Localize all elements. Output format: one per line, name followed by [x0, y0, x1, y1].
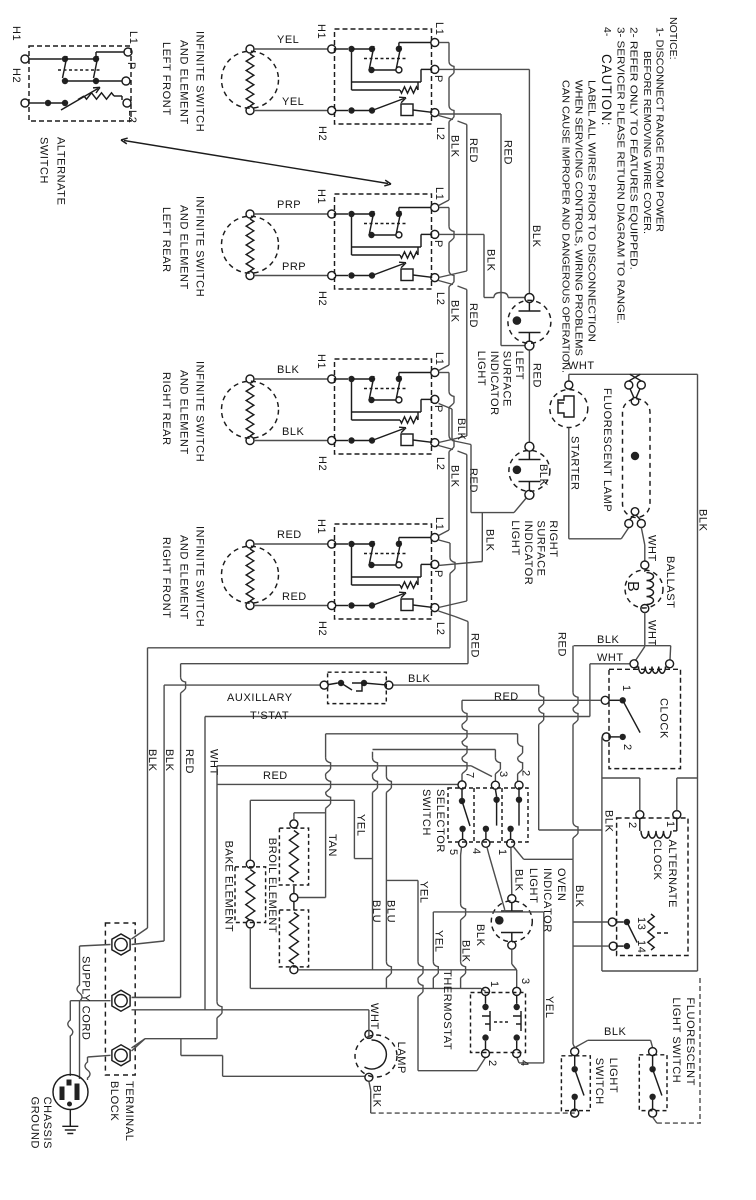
- element E2 (left rear surface element): [222, 216, 279, 273]
- wire starter to lamp bottom: [568, 428, 570, 539]
- broil element middle junction: [290, 894, 298, 902]
- svg-text:RED: RED: [556, 632, 568, 657]
- chassis ground plug: [53, 1075, 88, 1110]
- svg-text:7: 7: [464, 772, 476, 779]
- svg-text:RED: RED: [502, 140, 514, 165]
- thermostat terminal 4: [513, 1050, 521, 1058]
- svg-text:1: 1: [620, 685, 632, 692]
- terminal P SW2: [431, 230, 439, 238]
- clock terminal 2: [602, 733, 610, 741]
- svg-text:RED: RED: [263, 770, 288, 782]
- svg-text:3- SERVICER PLEASE RETURN DIAG: 3- SERVICER PLEASE RETURN DIAGRAM TO RAN…: [615, 27, 627, 324]
- svg-text:YEL: YEL: [418, 881, 430, 904]
- svg-text:PRP: PRP: [282, 261, 306, 273]
- svg-text:CLOCK: CLOCK: [658, 698, 670, 739]
- svg-text:BLK: BLK: [485, 249, 497, 272]
- svg-text:1: 1: [488, 981, 500, 988]
- selector terminal 5: [459, 839, 467, 847]
- svg-text:THERMOSTAT: THERMOSTAT: [441, 970, 453, 1050]
- svg-text:SURFACE: SURFACE: [500, 351, 512, 407]
- wire P1 to left surface indicator light (BLK): [439, 68, 530, 70]
- alternate clock terminal 13: [608, 918, 616, 926]
- svg-text:BLK: BLK: [537, 464, 549, 487]
- wire trunk vertical V1 BLK to terminal block: [147, 648, 149, 928]
- svg-text:BLK: BLK: [513, 869, 525, 892]
- light switch box: [561, 1056, 590, 1111]
- wire clock terminal 2 BLK drop: [601, 736, 603, 738]
- svg-text:BLK: BLK: [455, 418, 467, 441]
- wire broil bottom common line to thermostat 3: [298, 969, 517, 971]
- svg-text:BLK: BLK: [163, 749, 175, 772]
- wire trunk vertical V4 WHT: [204, 717, 206, 1010]
- bake element: [235, 867, 266, 923]
- wire P4 drop (BLK): [481, 513, 483, 562]
- terminal H1 SW2: [328, 210, 336, 218]
- wire element E4 H2 lead: [254, 605, 328, 607]
- terminal block box: [105, 923, 135, 1075]
- wire trunk line B (RED, L2 net): [181, 663, 468, 665]
- infinite switch SW3 internal contacts: [336, 378, 348, 380]
- wire selector feed line 2 to terminal 3: [217, 765, 471, 767]
- svg-text:WHT: WHT: [646, 535, 658, 562]
- supply cord wire 2: [70, 1000, 110, 1002]
- terminal block hex nut 1: [112, 934, 130, 955]
- svg-text:TERMINAL: TERMINAL: [123, 1081, 135, 1141]
- wire TAN drop to broil: [325, 734, 327, 758]
- svg-text:AND ELEMENT: AND ELEMENT: [178, 40, 190, 125]
- svg-text:2: 2: [486, 1060, 498, 1067]
- svg-text:INFINITE SWITCH: INFINITE SWITCH: [194, 31, 206, 132]
- svg-text:L2: L2: [434, 127, 446, 140]
- terminal L1 SW3: [431, 369, 439, 377]
- alternate clock terminal 2: [636, 811, 644, 819]
- wire clock terminal 1 RED line: [462, 699, 601, 701]
- svg-text:BLK: BLK: [449, 135, 461, 158]
- wire fluorescent switch bottom to chassis: [653, 1117, 657, 1123]
- svg-text:NOTICE:: NOTICE:: [667, 17, 679, 60]
- clock terminal 1: [601, 696, 609, 704]
- fluorescent lamp: [623, 399, 651, 518]
- selector switch box: [448, 788, 528, 842]
- wire WHT top lamp run: [569, 373, 698, 375]
- thermostat terminal 3: [513, 987, 521, 995]
- svg-text:AND ELEMENT: AND ELEMENT: [178, 535, 190, 620]
- wire terminal 13 stub: [573, 921, 608, 923]
- wire bake bottom to common line: [249, 928, 251, 989]
- infinite switch SW4 box: [335, 524, 432, 619]
- svg-text:2- REFER ONLY TO FEATURES EQUI: 2- REFER ONLY TO FEATURES EQUIPPED.: [628, 27, 640, 270]
- svg-text:FLUORESCENT: FLUORESCENT: [684, 998, 696, 1087]
- thermostat terminal 2: [482, 1050, 490, 1058]
- svg-text:INFINITE SWITCH: INFINITE SWITCH: [194, 361, 206, 462]
- wire RED line E to terminal 7: [217, 783, 458, 785]
- svg-text:H2: H2: [316, 621, 328, 636]
- wire oven lamp BLK to chassis line: [369, 1081, 371, 1090]
- wire L2 chain row2 to row3 (RED): [439, 281, 454, 285]
- broil element upper half: [279, 828, 308, 885]
- oven indicator light: [508, 895, 516, 903]
- wire alternate clock terminal 1 up: [676, 778, 678, 811]
- wire trunk line A (BLK, L1 net): [148, 647, 451, 649]
- terminal P SW1: [431, 65, 439, 73]
- svg-text:YEL: YEL: [433, 930, 445, 953]
- wire trunk vertical V2 BLK: [163, 685, 165, 941]
- alternate clock terminal 1: [673, 811, 681, 819]
- svg-text:WHEN SERVICING CONTROLS, WIRIN: WHEN SERVICING CONTROLS, WIRING PROBLEMS: [573, 80, 585, 356]
- svg-text:BEFORE REMOVING WIRE COVER.: BEFORE REMOVING WIRE COVER.: [641, 51, 653, 234]
- svg-text:BLU: BLU: [385, 900, 397, 923]
- svg-text:RED: RED: [467, 303, 479, 328]
- wire trunk vertical V5 RED: [216, 766, 218, 1002]
- svg-text:INDICATOR: INDICATOR: [541, 868, 553, 933]
- svg-text:STARTER: STARTER: [569, 436, 581, 491]
- svg-text:BLK: BLK: [603, 810, 615, 833]
- svg-text:WHT: WHT: [368, 1003, 380, 1030]
- svg-text:H2: H2: [10, 68, 22, 83]
- terminal L1 alternate switch: [124, 48, 132, 56]
- svg-text:BLK: BLK: [460, 940, 472, 963]
- svg-text:BLK: BLK: [408, 673, 430, 685]
- alternate clock coil: [639, 819, 641, 831]
- right surface indicator light: [509, 450, 550, 491]
- svg-text:1- DISCONNECT RANGE FROM POWER: 1- DISCONNECT RANGE FROM POWER: [654, 27, 666, 232]
- svg-text:4: 4: [518, 1060, 530, 1067]
- svg-text:CAN CAUSE IMPROPER AND DANGERO: CAN CAUSE IMPROPER AND DANGEROUS OPERATI…: [560, 80, 572, 373]
- wire L1 chain row3 to row4 (BLK): [439, 372, 449, 374]
- wire element E2 H1 lead: [254, 213, 328, 215]
- wire P2 to left surface indicator light (BLK): [439, 233, 484, 235]
- selector terminal 1: [507, 839, 515, 847]
- wire lamp to ballast (WHT): [641, 528, 645, 546]
- wire WHT clock line: [590, 663, 630, 665]
- svg-text:4-: 4-: [601, 27, 613, 37]
- svg-text:RIGHT: RIGHT: [547, 520, 559, 557]
- supply cord wire 1: [80, 945, 111, 947]
- svg-text:LABEL ALL WIRES PRIOR TO DISCO: LABEL ALL WIRES PRIOR TO DISCONNECTION: [586, 80, 598, 342]
- wire BLU vertical from selector-3 line: [385, 766, 387, 777]
- terminal H2 alternate switch: [21, 99, 29, 107]
- svg-text:RED: RED: [183, 749, 195, 774]
- wire oven light bottom to thermostat 3: [511, 950, 513, 964]
- terminal P SW4: [431, 560, 439, 568]
- svg-text:TAN: TAN: [326, 834, 338, 857]
- alternate clock resistor: [648, 914, 654, 950]
- svg-text:BLOCK: BLOCK: [108, 1081, 120, 1121]
- terminal L1 SW1: [431, 39, 439, 47]
- oven lamp: [365, 1030, 373, 1038]
- svg-text:CAUTION:: CAUTION:: [599, 54, 614, 127]
- wire hex2 WHT stub to oven lamp: [132, 1009, 369, 1011]
- svg-text:RED: RED: [467, 468, 479, 493]
- svg-text:SURFACE: SURFACE: [534, 520, 546, 576]
- terminal H1 SW1: [328, 45, 336, 53]
- svg-text:L2: L2: [434, 292, 446, 305]
- terminal L2 SW2: [431, 274, 439, 282]
- svg-text:WHT: WHT: [646, 620, 658, 647]
- wire element E3 H1 lead: [254, 378, 328, 380]
- terminal H2 SW4: [328, 602, 336, 610]
- svg-text:H1: H1: [315, 519, 327, 534]
- svg-text:BLK: BLK: [474, 924, 486, 947]
- svg-text:L1: L1: [127, 31, 139, 44]
- fluorescent light switch box: [639, 1055, 667, 1111]
- wire element E4 H1 lead: [254, 543, 328, 545]
- terminal block hex nut 2: [112, 990, 130, 1011]
- svg-text:INDICATOR: INDICATOR: [488, 351, 500, 416]
- svg-text:WHT: WHT: [597, 652, 624, 664]
- supply cord wire 3: [88, 1055, 111, 1057]
- wire chassis dashed line bottom: [371, 1112, 575, 1114]
- svg-text:BAKE ELEMENT: BAKE ELEMENT: [223, 841, 235, 933]
- svg-text:LEFT REAR: LEFT REAR: [160, 207, 172, 273]
- terminal H1 SW3: [328, 375, 336, 383]
- selector terminal 7: [458, 781, 466, 789]
- wire BLK between switches: [575, 1040, 588, 1047]
- wire alternate clock terminal 2 up: [639, 778, 641, 811]
- svg-text:L2: L2: [434, 457, 446, 470]
- svg-text:BROIL ELEMENT: BROIL ELEMENT: [266, 838, 278, 933]
- wire RED to bake top / YEL net: [250, 799, 354, 801]
- svg-text:RIGHT REAR: RIGHT REAR: [160, 372, 172, 446]
- svg-text:BLK: BLK: [449, 300, 461, 323]
- wire trunk vertical V3 RED: [180, 664, 182, 677]
- svg-text:SWITCH: SWITCH: [38, 137, 50, 184]
- ballast: [625, 570, 663, 608]
- svg-text:3: 3: [519, 978, 531, 985]
- alternate clock box: [617, 818, 688, 956]
- element E4 (right front surface element): [222, 546, 279, 603]
- svg-text:L1: L1: [433, 517, 445, 530]
- infinite switch SW3 box: [335, 359, 432, 454]
- broil element lower half: [279, 910, 308, 967]
- svg-text:AND ELEMENT: AND ELEMENT: [178, 205, 190, 290]
- svg-text:L2: L2: [434, 622, 446, 635]
- wire chassis right dashed: [699, 978, 701, 1123]
- thermostat internal contacts: [482, 1004, 488, 1010]
- svg-text:LIGHT SWITCH: LIGHT SWITCH: [670, 998, 682, 1084]
- wire V5 to terminal block hex3: [145, 1038, 217, 1040]
- svg-text:LEFT FRONT: LEFT FRONT: [160, 42, 172, 116]
- selector terminal 3: [491, 781, 499, 789]
- svg-text:RED: RED: [531, 363, 543, 388]
- wire selector feed line to terminal 3: [373, 749, 496, 751]
- svg-text:INFINITE SWITCH: INFINITE SWITCH: [194, 526, 206, 627]
- svg-text:LIGHT: LIGHT: [475, 351, 487, 386]
- wire YEL right drop to thermostat 4: [543, 912, 545, 1063]
- wire L2 chain row3 to row4 (RED): [439, 446, 454, 450]
- svg-text:L1: L1: [433, 22, 445, 35]
- broil element bottom terminal: [290, 966, 298, 974]
- terminal P SW3: [431, 395, 439, 403]
- terminal H2 SW1: [328, 107, 336, 115]
- auxiliary t'stat box: [328, 672, 387, 703]
- wire hex3 stub: [132, 1039, 146, 1051]
- wire selector 1 to light switch (BLK): [514, 847, 524, 859]
- svg-text:RED: RED: [277, 529, 302, 541]
- svg-text:H2: H2: [316, 456, 328, 471]
- svg-text:BLK: BLK: [530, 225, 542, 248]
- svg-text:FLUORESCENT LAMP: FLUORESCENT LAMP: [601, 388, 613, 512]
- svg-text:P: P: [432, 240, 444, 248]
- svg-text:H1: H1: [315, 354, 327, 369]
- ground symbol: [69, 1110, 71, 1127]
- wire element E2 H2 lead: [254, 275, 328, 277]
- wire aux t'stat line: [164, 684, 320, 686]
- wire right BLK bus: [697, 374, 699, 971]
- svg-text:H1: H1: [315, 189, 327, 204]
- svg-text:BLU: BLU: [370, 900, 382, 923]
- light switch terminals and contact: [571, 1048, 579, 1056]
- svg-text:2: 2: [520, 770, 532, 777]
- wire L1-4 drop to trunk A: [439, 540, 450, 543]
- svg-text:P: P: [125, 62, 137, 70]
- svg-text:14: 14: [635, 940, 647, 953]
- svg-text:2: 2: [621, 744, 633, 751]
- svg-text:3: 3: [497, 771, 509, 778]
- svg-text:BLK: BLK: [371, 1085, 383, 1108]
- terminal H1 SW4: [328, 540, 336, 548]
- svg-text:1: 1: [664, 821, 676, 828]
- svg-text:BLK: BLK: [604, 1026, 626, 1038]
- svg-text:1: 1: [496, 849, 508, 856]
- wire hex3 staircase to oven lamp: [180, 1039, 182, 1056]
- svg-text:LAMP: LAMP: [395, 1042, 407, 1074]
- wire L2 chain row1 to row2 (RED): [439, 116, 454, 120]
- wire YEL drop x=433.3: [432, 912, 434, 962]
- terminal block hex nut 3: [112, 1045, 130, 1066]
- infinite switch SW3 pilot resistor: [351, 382, 353, 412]
- svg-text:YEL: YEL: [355, 814, 367, 837]
- wire ballast to clock coil (WHT): [644, 613, 646, 647]
- wire WHT to oven lamp: [368, 1010, 370, 1039]
- svg-text:B: B: [624, 581, 641, 592]
- svg-text:4: 4: [470, 848, 482, 855]
- svg-text:BALLAST: BALLAST: [664, 556, 676, 609]
- terminal P alternate switch: [122, 77, 130, 85]
- infinite switch SW4 pilot resistor: [351, 547, 353, 577]
- wire selector-3 chain vertical: [372, 752, 374, 758]
- terminal L2 SW4: [431, 604, 439, 612]
- svg-text:CHASSIS: CHASSIS: [41, 1097, 53, 1150]
- selector internal contacts: [459, 798, 465, 804]
- svg-text:BLK: BLK: [449, 465, 461, 488]
- terminal L1 SW2: [431, 204, 439, 212]
- alternate clock terminal 14: [609, 942, 617, 950]
- svg-text:LIGHT: LIGHT: [527, 868, 539, 903]
- clock coil: [630, 660, 638, 668]
- svg-text:H2: H2: [316, 291, 328, 306]
- aux t'stat terminals and contact: [320, 681, 328, 689]
- terminal L2 alternate switch: [123, 99, 131, 107]
- svg-text:BLK: BLK: [277, 364, 299, 376]
- svg-text:BLK: BLK: [484, 529, 496, 552]
- wire L1 chain row1 to row2 (BLK): [439, 42, 449, 44]
- svg-text:RED: RED: [494, 691, 519, 703]
- infinite switch SW1 internal contacts: [336, 48, 348, 50]
- wire hex2 RED stub: [132, 996, 181, 998]
- alternate switch rotary contact and resistor: [29, 102, 45, 104]
- wire selector 5 to thermostat 1 (BLK): [460, 847, 463, 855]
- svg-text:P: P: [432, 405, 444, 413]
- wire L2-4 drop to trunk B: [439, 611, 456, 617]
- wire element E3 H2 lead: [254, 440, 328, 442]
- svg-text:ALTERNATE: ALTERNATE: [666, 840, 678, 909]
- wire BLK vertical clock line to light switch: [572, 646, 574, 693]
- infinite switch SW2 pilot resistor: [351, 217, 353, 247]
- svg-text:P: P: [432, 75, 444, 83]
- svg-text:13: 13: [635, 917, 647, 930]
- terminal H2 SW2: [328, 272, 336, 280]
- svg-text:2: 2: [626, 822, 638, 829]
- infinite switch SW1 pilot resistor: [351, 52, 353, 82]
- svg-text:AND ELEMENT: AND ELEMENT: [178, 370, 190, 455]
- svg-text:INFINITE SWITCH: INFINITE SWITCH: [194, 196, 206, 297]
- starter: [568, 374, 570, 381]
- terminal H1 alternate switch: [21, 55, 29, 63]
- svg-text:YEL: YEL: [543, 996, 555, 1019]
- clock box: [609, 669, 681, 768]
- svg-text:P: P: [432, 570, 444, 578]
- infinite switch SW4 internal contacts: [336, 543, 348, 545]
- infinite switch SW2 bottom contact and sensor: [336, 275, 348, 277]
- wire terminal 14 stub: [573, 945, 609, 947]
- svg-text:BLK: BLK: [282, 426, 304, 438]
- svg-text:LIGHT: LIGHT: [509, 520, 521, 555]
- wire selector 4 to YEL line: [487, 847, 489, 855]
- infinite switch SW2 internal contacts: [336, 213, 348, 215]
- svg-text:BLK: BLK: [597, 634, 619, 646]
- wire trunk line D WHT: [205, 716, 590, 718]
- wire P3 to right light bottom (BLK): [439, 404, 452, 410]
- svg-text:SUPPLY CORD: SUPPLY CORD: [80, 956, 92, 1040]
- thermostat terminal 1: [482, 987, 490, 995]
- arrow from alternate switch to infinite switch: [124, 141, 388, 184]
- svg-text:T’STAT: T’STAT: [250, 710, 289, 722]
- svg-text:SELECTOR: SELECTOR: [434, 789, 446, 853]
- svg-text:L1: L1: [433, 352, 445, 365]
- wire L2-1 RED to left light bottom: [439, 113, 502, 115]
- wire element E1 H1 lead: [254, 48, 328, 50]
- alternate switch internal contacts: [29, 58, 62, 60]
- svg-text:LEFT: LEFT: [513, 351, 525, 380]
- terminal L2 SW1: [431, 109, 439, 117]
- svg-text:H1: H1: [315, 24, 327, 39]
- svg-text:5: 5: [447, 849, 459, 856]
- svg-text:PRP: PRP: [277, 199, 301, 211]
- wire clock RED drop to terminal 7: [461, 700, 463, 708]
- svg-text:YEL: YEL: [282, 96, 304, 108]
- svg-text:SWITCH: SWITCH: [593, 1058, 605, 1105]
- svg-text:RIGHT FRONT: RIGHT FRONT: [160, 537, 172, 619]
- wire common bottom line (bake/blu/yel): [250, 987, 481, 989]
- svg-text:RED: RED: [467, 138, 479, 163]
- element E1 (left front surface element): [222, 51, 279, 108]
- svg-text:H2: H2: [316, 126, 328, 141]
- svg-text:INDICATOR: INDICATOR: [522, 520, 534, 585]
- element E3 (right rear surface element): [222, 381, 279, 438]
- left surface indicator light: [508, 300, 551, 343]
- infinite switch SW1 box: [335, 29, 432, 124]
- terminal L1 SW4: [431, 534, 439, 542]
- thermostat box: [471, 993, 526, 1053]
- svg-text:BLK: BLK: [697, 509, 709, 532]
- fluorescent light switch terminals and contact: [649, 1048, 657, 1056]
- infinite switch SW1 bottom contact and sensor: [336, 110, 348, 112]
- svg-text:BLK: BLK: [146, 749, 158, 772]
- svg-text:BLK: BLK: [573, 885, 585, 908]
- wire thermostat 2 to YEL vertical: [477, 1058, 486, 1071]
- infinite switch SW4 bottom contact and sensor: [336, 605, 348, 607]
